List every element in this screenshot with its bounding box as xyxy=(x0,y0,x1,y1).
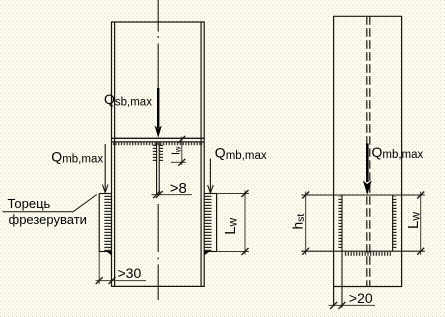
dimension >20 line xyxy=(329,304,375,306)
right force Qmb,max arrow line xyxy=(209,159,211,193)
right bracket bottom edge xyxy=(204,251,216,253)
dimension lw bottom extension xyxy=(171,161,186,163)
right bracket weld triangle xyxy=(204,252,209,256)
right column right edge xyxy=(401,16,403,286)
svg-text:>30: >30 xyxy=(118,265,142,281)
note leader underline xyxy=(3,211,74,213)
right column top edge xyxy=(333,15,402,17)
web right edge line xyxy=(158,142,160,195)
dimension Lw right bottom tick xyxy=(417,248,424,255)
left bracket weld triangle xyxy=(106,252,111,256)
column right flange inner line xyxy=(200,22,202,286)
column left flange inner line xyxy=(114,22,116,286)
dimension Lw (right figure) line xyxy=(420,192,422,255)
dimension >30 line xyxy=(96,280,147,282)
hidden web dashed line right xyxy=(369,16,371,286)
joint upper line xyxy=(112,137,205,139)
force Qmb,max (right figure) arrowhead xyxy=(363,181,372,195)
stiffener square top edge with dim extensions xyxy=(301,194,425,196)
dimension Lw bottom tick xyxy=(242,248,249,255)
left bracket outer edge xyxy=(98,194,100,252)
force Qsb,max arrowhead xyxy=(155,126,162,138)
right column left edge (extends down as extension line) xyxy=(333,16,335,306)
dimension Lw top tick xyxy=(242,190,249,197)
stiffener square bottom edge with dim extensions xyxy=(301,250,425,252)
column top edge xyxy=(111,21,205,23)
dimension Lw right top tick xyxy=(417,192,424,199)
right force Qmb,max arrowhead xyxy=(208,185,214,193)
left force Qmb,max arrowhead xyxy=(102,185,108,193)
column left flange outer line xyxy=(111,22,113,286)
right column bottom edge xyxy=(333,286,402,288)
hidden web dashed line left xyxy=(366,16,368,286)
joint lower line xyxy=(112,141,205,143)
left force Qmb,max arrow line xyxy=(104,144,106,192)
right bracket top edge xyxy=(204,193,216,195)
web weld comb right xyxy=(159,145,163,163)
right bracket milled face comb xyxy=(205,195,212,251)
stiffener square right edge xyxy=(392,195,394,251)
dimension >20 tick right xyxy=(338,302,345,309)
dimension lw bottom tick xyxy=(178,159,185,166)
centerline lower (dash-dot) xyxy=(157,204,159,252)
dimension Lw top extension xyxy=(217,193,249,195)
dimension >20 tick left xyxy=(330,302,337,309)
dimension lw top tick xyxy=(178,136,185,143)
dimension >30 tick right xyxy=(109,277,116,284)
dimension >8 tick right xyxy=(156,191,163,198)
right bracket outer edge xyxy=(216,194,218,252)
stiffener weld comb bottom xyxy=(345,252,392,256)
svg-text:>8: >8 xyxy=(170,180,187,197)
web left edge line xyxy=(156,142,158,195)
milled surface tick comb below joint xyxy=(113,143,203,146)
dimension >8 tick left xyxy=(153,191,160,198)
dimension hst bottom tick xyxy=(302,248,309,255)
dimension Lw bottom extension xyxy=(217,251,249,253)
web weld comb left xyxy=(153,145,157,163)
column bottom edge xyxy=(111,285,205,287)
svg-text:Lw: Lw xyxy=(222,217,240,234)
dimension hst top tick xyxy=(302,192,309,199)
dimension lw line xyxy=(181,137,183,166)
svg-text:Lw: Lw xyxy=(405,212,423,229)
left bracket bottom edge xyxy=(99,251,111,253)
note leader diagonal xyxy=(73,195,97,212)
dimension Lw (left figure) line xyxy=(244,191,246,255)
left bracket top edge xyxy=(99,193,111,195)
dimension hst line xyxy=(305,192,307,255)
stiffener weld comb left xyxy=(338,197,342,250)
dimension >30 tick left xyxy=(96,277,103,284)
stiffener weld comb right xyxy=(393,197,397,250)
force Qmb,max (right figure) arrow shaft xyxy=(366,144,369,183)
svg-text:фрезерувати: фрезерувати xyxy=(9,212,87,227)
dimension >30 extension line xyxy=(98,252,100,285)
centerline upper (dash-dot) xyxy=(157,0,159,32)
dimension >8 line xyxy=(152,194,193,196)
column right flange outer line xyxy=(203,22,205,286)
left bracket milled face comb xyxy=(104,195,111,251)
stiffener square left edge with extension down xyxy=(341,195,343,308)
svg-text:Торець: Торець xyxy=(8,196,51,211)
svg-text:>20: >20 xyxy=(349,290,373,306)
force Qsb,max arrow shaft xyxy=(157,88,159,128)
